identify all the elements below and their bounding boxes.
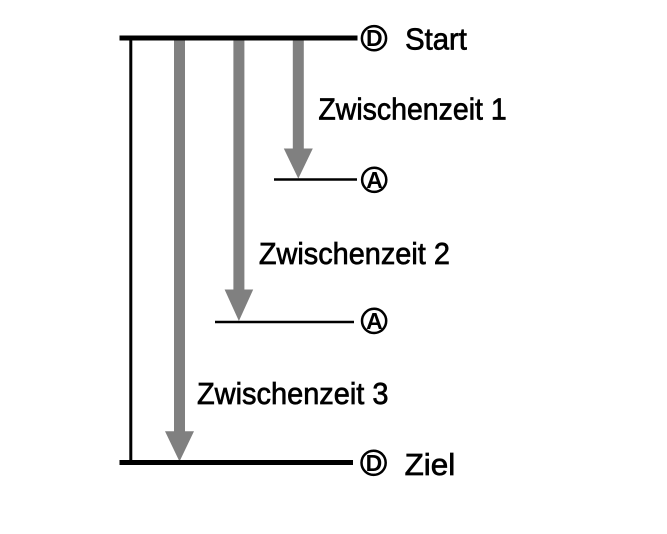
svg-text:Zwischenzeit 1: Zwischenzeit 1: [318, 92, 506, 127]
svg-text:Zwischenzeit 3: Zwischenzeit 3: [197, 376, 389, 411]
svg-text:Ziel: Ziel: [405, 447, 456, 482]
svg-text:Zwischenzeit 2: Zwischenzeit 2: [259, 236, 450, 271]
svg-text:D: D: [366, 25, 383, 51]
svg-text:Start: Start: [405, 21, 467, 56]
svg-text:A: A: [366, 308, 383, 334]
svg-text:A: A: [366, 167, 383, 193]
svg-text:D: D: [366, 450, 383, 476]
